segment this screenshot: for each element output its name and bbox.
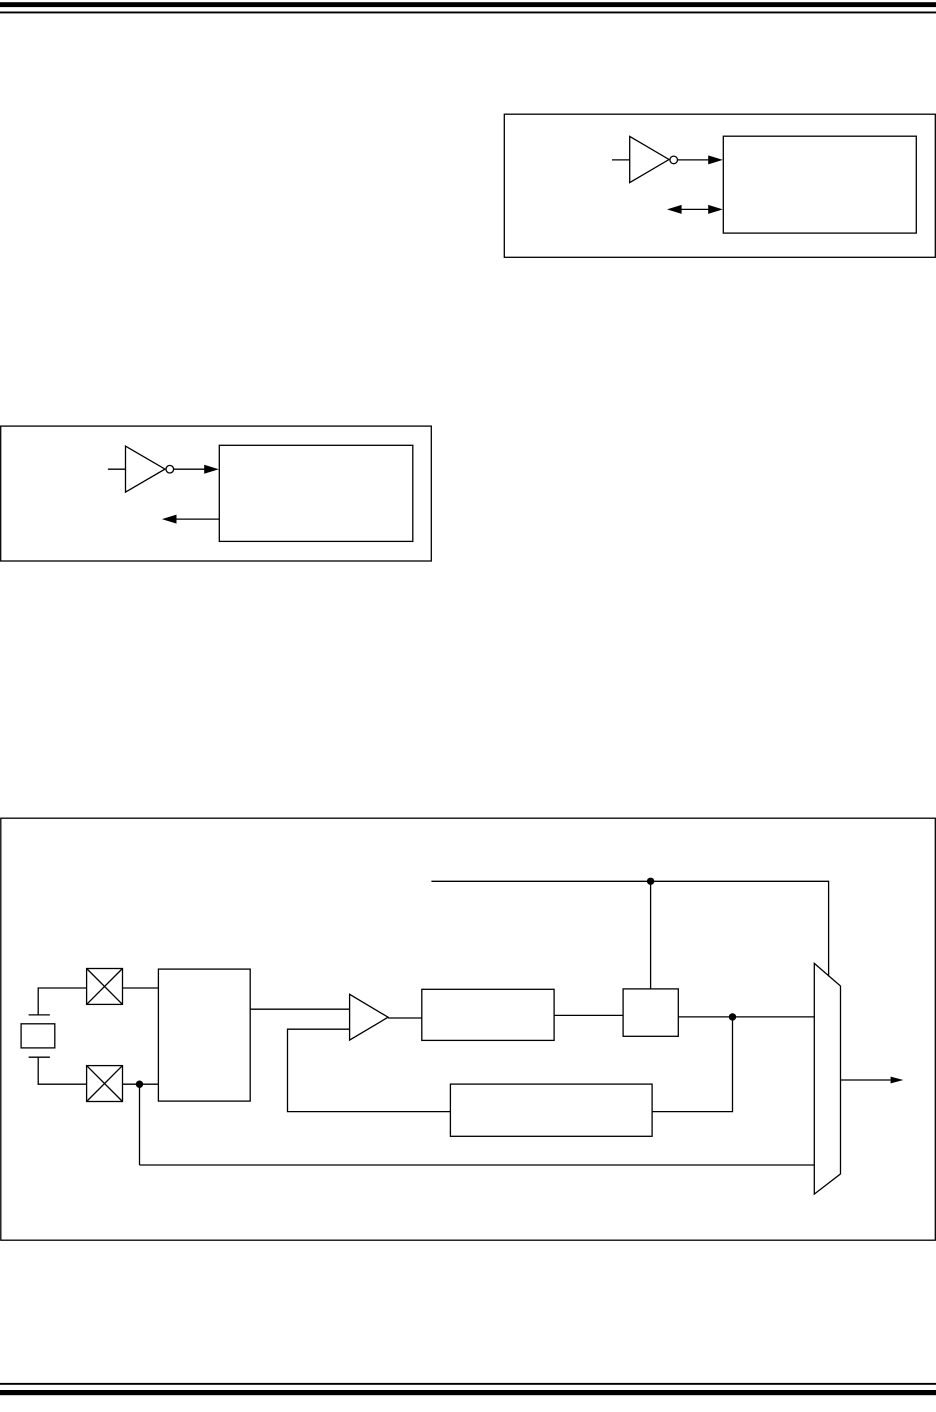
figure 1 frame (504, 114, 935, 257)
wire: U2 output to block (174, 468, 205, 470)
inverter U2 (EXTAL input inverter) (126, 446, 166, 492)
footer thick rule (0, 1390, 936, 1395)
wire: buffer output (388, 1017, 422, 1019)
inverter U2 bubble (166, 465, 174, 473)
crystal X1 bottom plate (29, 1056, 50, 1058)
header thick rule (0, 2, 936, 7)
figure 2 frame (1, 426, 432, 561)
wire: XTAL bottom lead (38, 1057, 86, 1084)
wire: feedback to buffer input (288, 1029, 451, 1111)
arrowhead into block (fig1) (708, 155, 723, 164)
arrowhead left of bidirectional bus (fig1) (667, 205, 682, 214)
junction node on prescaler output (729, 1013, 736, 1020)
pad cell XTAL (top X box) (87, 969, 123, 1005)
footer thin rule (0, 1383, 936, 1385)
wire: divider 1 to prescaler (554, 1014, 623, 1016)
wire: osc block output to buffer (250, 1008, 349, 1010)
junction node EXTAL (136, 1081, 143, 1088)
wire: inverter U1 input (612, 159, 630, 161)
wire: bypass rail (bottom) (140, 1164, 815, 1166)
arrowhead left output (fig2) (162, 515, 177, 524)
wire: mux output (841, 1079, 893, 1081)
wire: XTAL pad to osc block (123, 987, 159, 989)
junction on select rail (647, 878, 654, 885)
wire: U1 output to block (678, 159, 710, 161)
block: frequency divider 2 (450, 1084, 652, 1136)
block: clock generator box (fig2) (219, 445, 412, 541)
wire: EXTAL pad to osc block (123, 1083, 159, 1085)
wire: XTAL top lead (38, 988, 86, 1015)
wire: prescaler output to mux (678, 1016, 814, 1018)
block: prescaler (small square) (623, 989, 678, 1036)
inverter U1 (EXTAL input inverter) (630, 136, 669, 182)
crystal X1 body (21, 1024, 55, 1048)
crystal X1 top plate (29, 1014, 50, 1016)
wire: output line from block (fig2) (176, 518, 219, 520)
block: clock generator box (fig1) (723, 136, 916, 233)
arrowhead right of bidirectional bus (fig1) (708, 205, 723, 214)
arrowhead on mux output (891, 1077, 904, 1084)
header thin rule (0, 12, 936, 14)
wire: EXTAL bypass drop (139, 1084, 141, 1165)
block: oscillator circuit (158, 969, 250, 1101)
wire: tap down to divider 2 (652, 1017, 732, 1112)
buffer amplifier (350, 994, 389, 1040)
inverter U1 bubble (670, 156, 678, 164)
pad cell EXTAL (bottom X box) (87, 1066, 123, 1102)
wire: select rail (top) (431, 881, 828, 976)
block: frequency divider 1 (422, 989, 554, 1040)
wire: inverter U2 input (108, 468, 126, 470)
multiplexer (814, 963, 840, 1194)
arrowhead into block (fig2) (204, 465, 219, 474)
wire: bidirectional bus (fig1) (680, 208, 710, 210)
wire: select rail drop to divider box (650, 881, 652, 989)
figure 3 frame (1, 818, 936, 1240)
